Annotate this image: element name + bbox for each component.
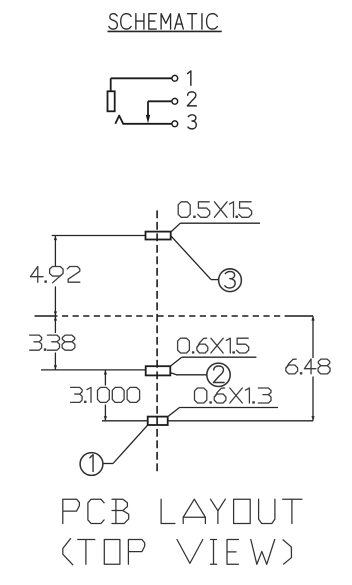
dimension line 3.38 [54,316,57,370]
dimension text 3.38 [30,335,75,350]
tip contact rectangle [108,91,115,111]
leader to balloon 1 [103,425,148,463]
pad 2 extension line [41,369,146,371]
balloon digit 1 [90,455,93,472]
caption PCB LAYOUT [63,499,302,523]
dimension line 3.1000 [104,370,107,421]
leader 0.5X1.5 [171,223,260,232]
dimension text 3.1000 [71,387,140,402]
label 0.6X1.5 [178,338,249,353]
pad 1 right extension line [168,420,313,422]
pin 1 label [188,71,191,85]
pad 1 (bottom) [148,417,168,425]
label 0.5X1.5 [178,202,251,218]
pad 3 extension line [52,235,146,237]
pin 3 terminal circle [172,121,178,127]
vertical centerline [156,210,158,474]
leader 0.6X1.3 [168,408,278,417]
pad 3 (top) [146,232,171,240]
label 0.6X1.3 [195,388,272,403]
pin 2 label [187,92,196,106]
pin 1 terminal circle [172,75,178,81]
dimension text 4.92 [31,267,80,283]
pad 2 (middle) [146,366,171,375]
balloon digit 2 [213,366,224,383]
balloon circle 2 [207,363,230,386]
datum centerline [35,315,314,317]
leader 0.6X1.5 [170,357,256,366]
leader to balloon 2 [170,373,207,375]
spring contact chevron [115,116,123,124]
caption (TOP VIEW) [63,539,292,565]
balloon digit 3 [225,272,235,289]
wire pin 3 [123,123,172,125]
leader to balloon 3 [171,236,219,280]
pin 3 label [188,115,196,129]
pad 1 extension line [102,420,148,422]
pin 2 terminal circle [172,98,178,104]
dimension line 6.48 [311,316,314,421]
title SCHEMATIC [109,14,217,29]
balloon circle 3 [219,269,242,292]
dimension line 4.92 [54,236,57,317]
title underline [108,30,222,32]
wire pin 1 [111,78,172,91]
switch wire with arrow [146,101,150,123]
balloon circle 1 [80,453,103,476]
wire pin 2 [148,100,172,102]
dimension text 6.48 [286,359,330,374]
